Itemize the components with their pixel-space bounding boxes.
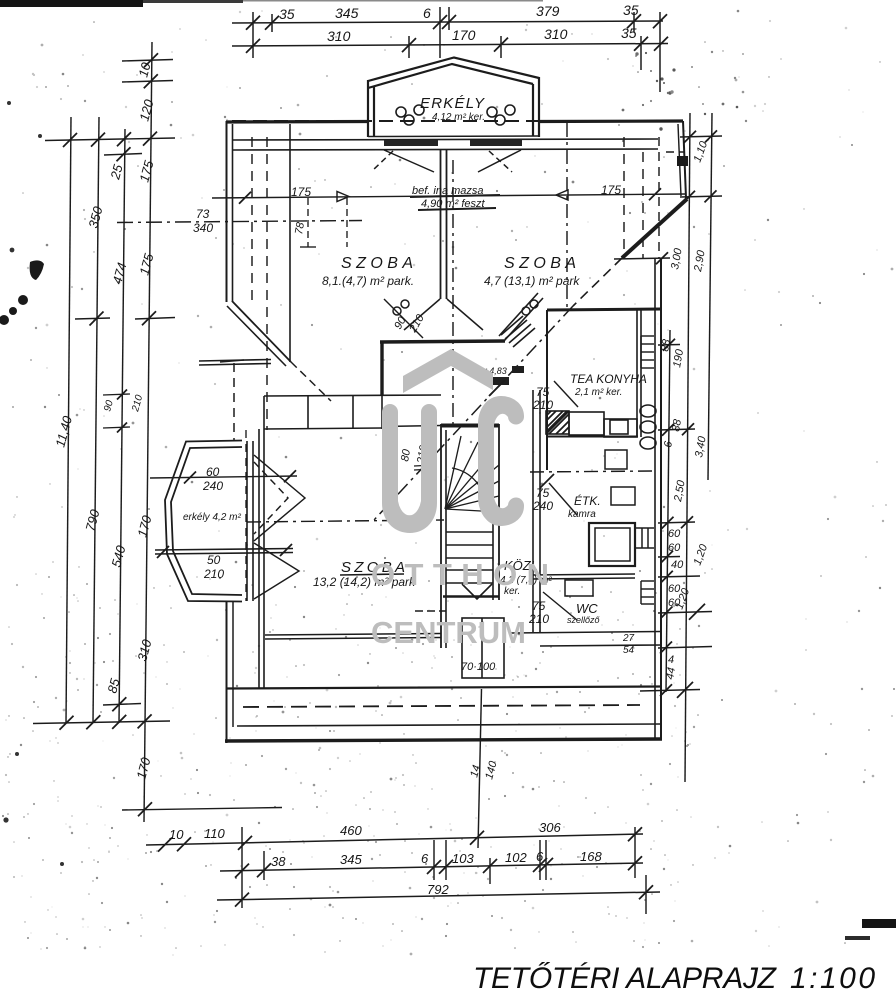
ridge dash-dot vertical right — [566, 123, 568, 310]
svg-text:2,1 m² ker.: 2,1 m² ker. — [574, 387, 622, 398]
wc top wall — [530, 574, 635, 579]
balcony gable roof outline — [368, 58, 539, 138]
right edge black bar bottom — [862, 919, 896, 928]
top dimension labels row 2 — [327, 25, 637, 44]
svg-text:TEA KONYHA: TEA KONYHA — [570, 372, 647, 386]
svg-text:210: 210 — [532, 398, 553, 412]
small vertical dim bracket x=308 — [300, 198, 347, 247]
svg-text:73: 73 — [196, 207, 210, 221]
svg-text:340: 340 — [193, 221, 213, 235]
left dimension cross ticks — [33, 53, 282, 816]
balcony door sill left (dark) — [384, 140, 438, 146]
left outer wall upper — [227, 121, 233, 302]
hatch diagonals near entry — [501, 316, 535, 347]
svg-text:102: 102 — [505, 850, 527, 865]
stair direction V — [462, 584, 492, 599]
label ETK kamra — [568, 493, 601, 520]
kitchen counter: hatched stove — [546, 411, 569, 434]
svg-text:75: 75 — [532, 599, 546, 613]
balcony door swings — [373, 150, 521, 172]
svg-text:210: 210 — [203, 567, 224, 581]
washing box — [605, 450, 627, 469]
kitchen door swing — [554, 381, 578, 407]
svg-text:240: 240 — [532, 499, 553, 513]
B2 labels — [271, 849, 602, 869]
svg-text:OTTHON: OTTHON — [371, 557, 553, 592]
svg-text:210: 210 — [528, 612, 549, 626]
bottom handwritten title — [473, 962, 875, 995]
left dimension labels (rotated) — [52, 60, 156, 781]
svg-text:4,7 (13,1) m² park: 4,7 (13,1) m² park — [484, 274, 580, 288]
chimney block below stairs — [462, 618, 504, 678]
svg-text:4: 4 — [668, 654, 674, 666]
roof ridge diagonal continuation — [573, 258, 622, 306]
svg-text:1:100: 1:100 — [790, 962, 875, 995]
svg-text:4,12 m² ker.: 4,12 m² ker. — [432, 112, 485, 123]
bay dim label 60/240 — [202, 465, 223, 493]
balcony door sill right (dark) — [470, 140, 522, 146]
svg-text:WC: WC — [576, 601, 598, 616]
svg-text:175: 175 — [291, 185, 311, 199]
svg-text:TETŐTÉRI ALAPRAJZ: TETŐTÉRI ALAPRAJZ — [473, 962, 778, 995]
svg-text:40: 40 — [671, 559, 684, 571]
room label SZOBA left — [322, 255, 414, 288]
straight treads — [443, 532, 499, 597]
bottom wall inner line 2 — [237, 724, 661, 726]
chamfered corner thick diagonal — [622, 199, 687, 258]
entry door swing — [384, 299, 423, 338]
svg-text:306: 306 — [539, 820, 561, 835]
big room bottom wall — [265, 634, 441, 640]
svg-text:38: 38 — [271, 854, 286, 869]
right dimension vertical R1 — [666, 330, 670, 692]
house top wall (north) — [226, 121, 683, 122]
dash-dot line y=221 — [117, 221, 362, 223]
bay dim line y=551 (thick double) — [155, 544, 293, 558]
dim arrows — [337, 192, 349, 202]
wc sink — [565, 580, 593, 596]
wc door 75/210 — [528, 599, 549, 626]
svg-text:CENTRUM: CENTRUM — [371, 615, 527, 650]
B1 labels — [169, 820, 561, 842]
wall segment above stairs — [382, 426, 441, 427]
central dividing wall between bedrooms — [441, 150, 447, 299]
ridge dash-dot vertical center — [452, 160, 454, 424]
balcony label ERKELY — [420, 95, 485, 123]
svg-text:10: 10 — [169, 827, 184, 842]
svg-text:103: 103 — [452, 851, 474, 866]
tick cross near entry — [489, 380, 505, 396]
stair fan treads — [445, 436, 499, 512]
chamfer diagonal wall (upper-left room) — [227, 301, 331, 401]
svg-text:54: 54 — [623, 645, 635, 656]
duct to right wall — [635, 528, 654, 548]
entry chamfer glass wall — [499, 293, 543, 341]
bedroom door right (circles+swing) — [447, 299, 538, 330]
bay inner wall verticals with window — [247, 441, 253, 601]
svg-text:170: 170 — [452, 27, 476, 43]
svg-text:460: 460 — [340, 823, 362, 838]
dash-dot horizontal y=521 — [247, 520, 444, 522]
svg-text:240: 240 — [202, 479, 223, 493]
right wall window (wc area) — [641, 581, 654, 604]
kitchen label TEA KONYHA — [570, 372, 647, 398]
right wall window (kitchen) — [641, 336, 654, 368]
stove burner circles — [640, 405, 656, 449]
svg-text:792: 792 — [427, 882, 449, 897]
top dimension line row 2 — [232, 36, 668, 70]
bay dim line y=477 — [150, 470, 297, 483]
right outer wall lower — [655, 137, 661, 740]
left outer wall lower (below bay) — [227, 601, 234, 743]
kitchen top wall — [547, 309, 661, 310]
svg-text:6: 6 — [421, 851, 429, 866]
room label SZOBA right — [484, 255, 580, 288]
svg-text:ÉTK.: ÉTK. — [574, 493, 601, 508]
svg-text:50: 50 — [207, 553, 221, 567]
svg-text:kamra: kamra — [568, 509, 596, 520]
dash-dot horizontal y=611 — [415, 610, 446, 612]
small box right of etk — [611, 487, 635, 505]
dash-dot partition y=472 — [530, 471, 655, 472]
svg-text:13,2 (14,2) m² park: 13,2 (14,2) m² park — [313, 575, 416, 589]
balcony door hinge circles left — [396, 105, 424, 125]
bottom outer wall (thick) — [225, 739, 662, 741]
dim line y=196 with arrows — [212, 188, 686, 204]
svg-text:erkély 4,2 m²: erkély 4,2 m² — [183, 512, 241, 523]
bottom dim line B3 — [217, 885, 660, 906]
svg-text:8,1.(4,7) m² park.: 8,1.(4,7) m² park. — [322, 274, 414, 288]
balcony door hinge circles right — [487, 105, 515, 125]
etk door swing — [549, 483, 577, 515]
svg-text:310: 310 — [327, 28, 351, 44]
svg-text:35: 35 — [623, 2, 639, 18]
labels 27/54 — [622, 633, 635, 656]
room label SZOBA lower — [313, 559, 416, 589]
entry room top wall — [380, 341, 505, 342]
double horizontal ledge line left of room — [199, 360, 271, 366]
watermark letter O (house shape) — [382, 404, 437, 533]
top dimension line row 1 — [232, 7, 667, 92]
svg-text:35: 35 — [621, 25, 637, 41]
right dimension vertical R2 — [685, 113, 690, 782]
hall top wall band — [264, 341, 441, 429]
window casement triangles — [254, 455, 305, 599]
label 80/210 rotated (stair) — [399, 443, 430, 465]
dashed vertical beside bay window — [245, 430, 247, 601]
small dim ticks on L3 mid — [103, 390, 130, 433]
etk door 75/240 — [532, 486, 553, 513]
dashed wall line behind balcony — [232, 120, 683, 122]
roof slope dashed lines upper-right room — [624, 137, 685, 258]
entry room left wall — [380, 341, 383, 395]
svg-text:345: 345 — [340, 852, 362, 867]
dim labels 175 — [291, 183, 621, 199]
svg-text:44: 44 — [664, 666, 678, 680]
left dimension vertical lines — [66, 42, 152, 822]
svg-text:310: 310 — [544, 26, 568, 42]
watermark OC logo roof chevron — [403, 349, 493, 393]
svg-text:ERKÉLY: ERKÉLY — [420, 95, 485, 112]
dashed left wall segment above bay — [233, 363, 235, 440]
top dimension labels row 1 — [279, 2, 639, 22]
svg-text:168: 168 — [580, 849, 602, 864]
dark square on right wall — [677, 156, 688, 166]
bottom dim verticals — [242, 827, 646, 914]
big cupboard — [589, 523, 635, 566]
right outer wall top segment — [678, 121, 686, 198]
house line extension to bottom dims — [478, 689, 482, 848]
handwritten note center — [410, 185, 500, 210]
kitchen door 75/210 — [532, 385, 553, 412]
left edge blobs — [30, 260, 44, 280]
entry steps dark blocks — [512, 366, 524, 373]
label 14/140 rotated — [468, 759, 500, 781]
svg-text:70·100: 70·100 — [461, 661, 496, 673]
small bracket under 80/210 — [414, 465, 434, 470]
bay window (erker) outline — [165, 441, 242, 602]
bottom dim line B1 — [146, 827, 643, 851]
wc door swing — [543, 592, 577, 620]
bottom wall inner line — [226, 687, 661, 689]
svg-text:175: 175 — [601, 183, 621, 197]
svg-text:345: 345 — [335, 5, 359, 21]
long dash-dot roof valley diagonal — [374, 306, 573, 520]
wc label — [567, 601, 601, 625]
kitchen inner wall vertical — [547, 310, 641, 470]
right dim labels — [659, 139, 710, 681]
svg-text:27: 27 — [622, 633, 635, 644]
tick at diagonal foot — [220, 360, 244, 362]
balcony slab bottom line — [368, 135, 539, 138]
bottom dim line B2 — [220, 856, 643, 877]
bottom wall dashed mid line — [243, 705, 640, 707]
right dim ticks — [614, 130, 722, 698]
right dimension vertical R3 — [708, 113, 712, 480]
corridor label KOZL — [500, 558, 552, 597]
inner top wall band — [232, 139, 658, 150]
svg-text:60: 60 — [668, 542, 681, 554]
svg-text:75: 75 — [536, 486, 550, 500]
svg-text:35: 35 — [279, 6, 295, 22]
label 73/340 — [193, 207, 213, 235]
top edge black bar — [0, 0, 143, 7]
watermark letter C — [478, 396, 524, 526]
corridor right wall — [533, 390, 540, 632]
svg-text:379: 379 — [536, 3, 560, 19]
big room left wall lower — [259, 429, 264, 688]
wc bottom wall — [511, 632, 661, 647]
kitchen counter rects — [546, 412, 638, 437]
svg-text:110: 110 — [204, 826, 225, 841]
bedroom door left (circles+swing) — [393, 299, 440, 330]
svg-text:60: 60 — [668, 528, 681, 540]
bay dim label 50/210 — [203, 553, 224, 581]
svg-text:6: 6 — [423, 5, 431, 21]
stair shaft walls — [441, 424, 499, 648]
roof slope dashed lines upper-left room — [252, 124, 290, 430]
label 90/210 rotated — [392, 312, 427, 336]
